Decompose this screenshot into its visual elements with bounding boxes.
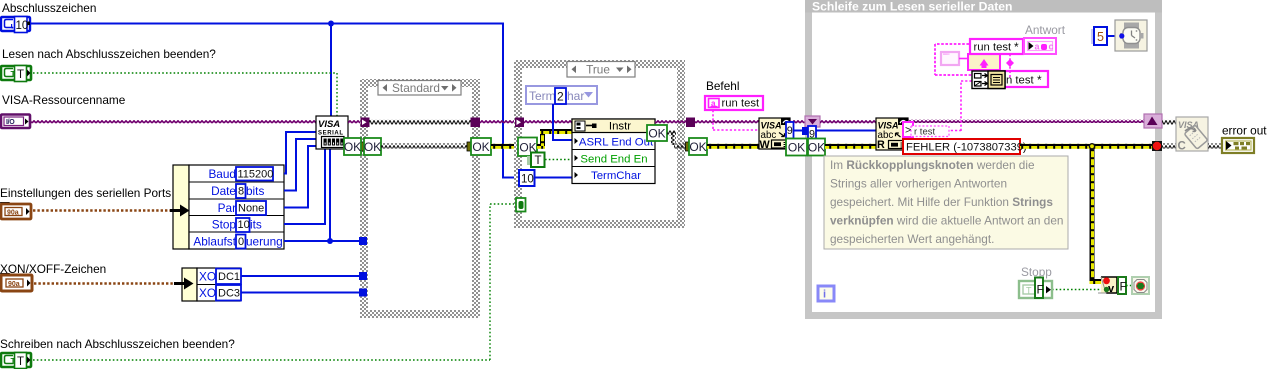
node ring constant TermChar: [526, 86, 597, 104]
constant 2 termination mode: [555, 88, 566, 104]
wire error yellow between case 1 and case 2: [491, 144, 519, 149]
wire blue from 5 to Wait function: [1107, 35, 1120, 37]
node junction diamond on answer wire: [1006, 59, 1014, 67]
node error display FEHLER (-1073807339): [903, 139, 1020, 154]
svg-text:Term: Term: [529, 89, 556, 103]
svg-text:error out: error out: [1222, 124, 1267, 138]
wire blue Ablaufsteuerung from bundle to case 1 tunnel with branch to VISA serial icon: [284, 149, 359, 241]
wire blue Paritaet from bundle to VISA serial icon: [284, 146, 316, 208]
node error wire value display OK outside loop: [786, 139, 807, 156]
svg-text:DC3: DC3: [218, 288, 240, 300]
svg-text:run test: run test: [974, 42, 1013, 54]
svg-text:Date: Date: [211, 184, 236, 198]
node tunnel olive error on case 1 left border: [360, 142, 366, 151]
node tunnel black error on loop border: [804, 142, 809, 150]
svg-text:Stop: Stop: [212, 218, 237, 232]
svg-text:F: F: [1120, 280, 1127, 294]
svg-text:OK: OK: [344, 140, 361, 154]
svg-text:OK: OK: [364, 140, 381, 154]
node error wire value display OK at case 1 right: [471, 138, 491, 155]
node Wait (ms) function icon: [1115, 20, 1147, 51]
constant DC3 XOFF character: [216, 285, 241, 301]
node tunnel blue byte count on loop border: [802, 127, 810, 135]
node read string value display >: [903, 122, 913, 137]
svg-text:Strings aller vorherigen Antwo: Strings aller vorherigen Antworten: [830, 177, 1007, 191]
node tunnel blue flow-control on case 1 left border: [359, 237, 367, 245]
node black arrow into XON/XOFF unbundle: [174, 278, 194, 290]
svg-text:*: *: [1037, 73, 1042, 87]
wire zigzag VISA from loop to VISA Close: [1162, 120, 1176, 125]
structure case 2 border (True): [514, 60, 685, 228]
svg-text:F: F: [1037, 283, 1044, 297]
svg-text:90a: 90a: [8, 281, 20, 288]
svg-text:8: 8: [238, 186, 244, 198]
wire blue Datenbits from bundle to VISA serial icon: [284, 139, 316, 191]
wire purple VISA inside case 1: [369, 120, 472, 125]
svg-text:its: its: [250, 218, 262, 232]
node shift register right (VISA): [1144, 114, 1162, 128]
wire blue byte count from Write to VISA Read: [793, 130, 876, 132]
svg-text:i: i: [823, 289, 826, 301]
svg-text:5: 5: [1097, 30, 1104, 44]
svg-text:C: C: [1178, 141, 1186, 153]
wire purple VISA from case 2 to VISA Write: [695, 120, 759, 124]
constant boolean T for Send End En: [527, 153, 545, 168]
svg-text:VISA-Ressourcenname: VISA-Ressourcenname: [2, 93, 126, 107]
node error wire value display OK right of case 2: [689, 138, 707, 155]
svg-text:OK: OK: [648, 127, 665, 141]
svg-text:Abschlusszeichen: Abschlusszeichen: [2, 1, 96, 15]
svg-text:uerung: uerung: [246, 235, 283, 249]
wire error yellow from loop border to VISA Read: [825, 144, 876, 149]
svg-text:OK: OK: [788, 141, 805, 155]
node tunnel blue XON DC1 on case 1 left border: [359, 272, 367, 280]
node read string partial display r test: [911, 126, 949, 137]
wire green dotted from Stopp terminal to Or node: [1052, 289, 1104, 291]
wire blue Stoppbits from bundle to VISA serial icon bottom: [284, 149, 325, 224]
wire error zigzag inside case 1: [381, 144, 468, 149]
wire error zigzag from property node to case 2 right tunnel: [667, 131, 676, 136]
svg-text:T: T: [17, 69, 24, 81]
svg-text:r test: r test: [914, 127, 935, 138]
terminal Abschlusszeichen numeric control U16 value 10: [1, 17, 30, 33]
wire blue from Abschlusszeichen to case 2 tunnel: [31, 23, 520, 178]
node feedback node initializer: [941, 52, 959, 65]
svg-text:run test: run test: [722, 98, 761, 110]
constant 10 stop bits: [236, 218, 250, 232]
svg-text:Antwort: Antwort: [1025, 23, 1066, 37]
node black arrow into serial-settings bundle: [170, 205, 190, 217]
svg-text:Standard: Standard: [392, 81, 440, 95]
constant 8 data bits: [236, 184, 246, 198]
node comment box Rueckkopplungsknoten: [824, 156, 1068, 249]
wire purple VISA from Read to right shift register: [908, 119, 1144, 123]
wire blue from ring constant to ASRL End Out property: [553, 104, 575, 140]
node junction dot on Ablaufsteuerung wire: [327, 238, 333, 244]
node feedback wire zigzag (previous answer): [935, 44, 972, 75]
wire green dotted from Or to loop condition terminal: [1126, 285, 1133, 287]
svg-text:VISA: VISA: [878, 121, 899, 131]
node VISA Configure Serial Port VI icon: [316, 116, 348, 149]
terminal VISA-Ressourcenname I/O control: [1, 115, 30, 129]
node byte count value display 9 outside loop: [786, 122, 794, 139]
node tunnel blue XOFF DC3 on case 1 left border: [359, 289, 367, 297]
svg-text:Im Rückkopplungsknoten werden: Im Rückkopplungsknoten werden die: [830, 158, 1035, 172]
svg-text:I/O: I/O: [6, 119, 15, 126]
svg-text:Par: Par: [218, 201, 236, 215]
terminal Stopp boolean control: [1019, 278, 1052, 299]
svg-text:90a: 90a: [7, 210, 19, 217]
node bundle-by-name serial settings (Baudrate/Datenbits/Paritaet/Stoppbits/Ablaufsteuerung): [173, 165, 284, 249]
node tunnel green boolean on case 2 left border bottom: [516, 198, 526, 212]
svg-text:Befehl: Befehl: [706, 79, 739, 93]
svg-text:VISA: VISA: [761, 121, 782, 131]
wire blue from tunnel 10 to TermChar property: [535, 177, 576, 179]
wire error yellow from OK display up into property node: [537, 144, 545, 149]
node error wire value display OK outside case 1: [344, 138, 361, 155]
node VISA Write VI icon: [759, 118, 790, 151]
wire brown dotted cluster from Einstellungen terminal to bundle node: [33, 209, 174, 212]
node loop condition terminal stop if true: [1132, 277, 1149, 294]
svg-text:""'': ""'': [943, 54, 950, 60]
svg-text:0: 0: [238, 236, 244, 248]
constant DC1 XON character: [216, 269, 241, 285]
node tunnel purple VISA case 1 right: [471, 118, 481, 128]
svg-text:9: 9: [787, 125, 793, 137]
node tunnel purple VISA case 1 left: [361, 118, 370, 128]
wire brown dotted cluster from XON/XOFF terminal to unbundle node: [34, 282, 178, 285]
svg-text:Schleife zum Lesen serieller D: Schleife zum Lesen serieller Daten: [812, 0, 1013, 14]
node tunnel purple VISA case 2 right: [686, 118, 695, 128]
svg-text:Lesen nach Abschlusszeichen be: Lesen nach Abschlusszeichen beenden?: [2, 47, 216, 61]
wire purple VISA inside case 2 to property node: [524, 120, 573, 124]
svg-text:Ablaufst: Ablaufst: [193, 235, 236, 249]
node concatenated string display n test * (run test): [1002, 71, 1048, 87]
svg-text:115200: 115200: [238, 169, 274, 181]
node tunnel numeric 10 on case 2 left border: [519, 170, 535, 186]
node unbundle XON/XOFF characters: [182, 268, 240, 301]
svg-text:har: har: [567, 89, 584, 103]
svg-text:W: W: [760, 139, 771, 151]
node case 2 selector label True: [567, 62, 635, 78]
node error wire value display OK at property node output: [647, 125, 667, 141]
wire pink dotted string from Befehl terminal to VISA Write: [713, 110, 759, 130]
node byte count value display 9 inside loop: [808, 126, 816, 142]
wire purple VISA between case 1 and case 2: [480, 120, 515, 124]
node junction dot on Abschlusszeichen wire: [328, 21, 334, 27]
svg-text:OK: OK: [689, 140, 706, 154]
structure case 1 border (Standard): [360, 79, 480, 318]
svg-text:OK: OK: [472, 140, 489, 154]
wire error yellow from case 2 to VISA Write: [707, 144, 759, 149]
svg-text:TermChar: TermChar: [591, 170, 641, 182]
wire error yellow branch down to Or node: [1090, 146, 1095, 279]
node tunnel olive error on case 1 right border: [467, 142, 473, 151]
svg-text:10: 10: [238, 219, 250, 231]
node VISA property node Instr (ASRL End Out / Send End En / TermChar): [572, 119, 655, 184]
node tunnel olive error on case 2 right border: [686, 142, 691, 151]
wire purple VISA from property node to case 2 right tunnel: [655, 120, 686, 124]
svg-text:Schreiben nach Abschlusszeiche: Schreiben nach Abschlusszeichen beenden?: [0, 337, 235, 351]
constant 115200 baud rate: [236, 167, 273, 181]
structure while loop Schleife zum Lesen serieller Daten: [805, 0, 1162, 319]
svg-text:T: T: [17, 356, 24, 368]
svg-text:OK: OK: [808, 141, 825, 155]
wire zigzag error from VISA Close to error out: [1208, 144, 1223, 149]
wire purple VISA from Write to loop shift register: [790, 120, 806, 124]
svg-text:XO: XO: [199, 286, 216, 300]
svg-text:None: None: [238, 203, 264, 215]
terminal XON/XOFF-Zeichen cluster control: [0, 273, 32, 291]
wire blue Baudrate from bundle to VISA serial icon: [284, 132, 316, 174]
node error wire value display OK at case 2 left: [518, 138, 537, 157]
node tunnel error with red dot on loop right border: [1152, 141, 1162, 151]
svg-text:VISA: VISA: [318, 119, 340, 130]
wire pink read string from Read up to concatenate: [913, 81, 972, 131]
wire purple VISA from shift register to VISA Read: [820, 120, 876, 124]
svg-text:Send End En: Send End En: [580, 154, 647, 166]
constant 0 flow control: [236, 235, 246, 249]
wire error yellow from FEHLER display to loop right border: [1020, 144, 1153, 149]
node tunnel purple VISA case 2 left: [515, 118, 524, 128]
svg-text:T: T: [1026, 286, 1032, 296]
node case 1 selector label Standard: [378, 81, 461, 96]
node boolean value display F at Or output: [1118, 277, 1126, 294]
svg-text:bits: bits: [246, 184, 264, 198]
node iteration terminal i: [818, 286, 834, 301]
svg-text:gespeichert. Mit Hilfe der Fun: gespeichert. Mit Hilfe der Funktion Stri…: [830, 195, 1053, 209]
node error wire value display OK inside case 1 left: [364, 138, 381, 155]
svg-text:verknüpfen wird die aktuelle A: verknüpfen wird die aktuelle Antwort an …: [830, 214, 1063, 228]
svg-text:10: 10: [521, 174, 534, 186]
svg-text:*: *: [1014, 40, 1019, 54]
svg-text:XO: XO: [199, 270, 216, 284]
constant None parity: [236, 201, 266, 215]
node error wire value display OK inside loop: [808, 139, 825, 156]
wire blue XON char DC1 to case 1 tunnel: [240, 275, 359, 277]
terminal Einstellungen des seriellen Ports cluster control: [0, 202, 31, 219]
wire zigzag error from loop to VISA Close: [1162, 144, 1176, 149]
svg-text:2: 2: [557, 90, 564, 104]
svg-text:R: R: [877, 139, 885, 151]
wire green dotted Lesen nach Abschlusszeichen to VISA serial icon: [33, 73, 337, 116]
svg-text:True: True: [586, 63, 610, 77]
svg-text:gespeicherten Wert angehängt.: gespeicherten Wert angehängt.: [830, 232, 994, 246]
terminal Schreiben nach Abschlusszeichen beenden? boolean TRUE: [1, 353, 31, 369]
wire purple VISA resource from terminal to VISA serial icon: [30, 120, 316, 124]
terminal Antwort string indicator: [1024, 38, 1056, 54]
node feedback node: [968, 54, 1000, 70]
svg-text:FEHLER (-1073807339): FEHLER (-1073807339): [906, 142, 1027, 154]
wire blue XOFF char DC3 to case 1 tunnel: [240, 292, 359, 294]
svg-text:DC1: DC1: [218, 271, 240, 283]
svg-text:T: T: [535, 155, 542, 167]
terminal Lesen nach Abschlusszeichen beenden? boolean TRUE: [1, 66, 31, 82]
svg-text:SERIAL: SERIAL: [318, 131, 344, 137]
terminal Befehl string control value run test: [705, 96, 763, 110]
svg-text:Baud: Baud: [208, 167, 236, 181]
svg-text:c: c: [1049, 42, 1054, 52]
terminal error out cluster indicator: [1222, 138, 1254, 153]
wire green dotted from T constant to Send End En property: [545, 159, 575, 161]
node answer string display run test *: [970, 39, 1023, 54]
node VISA Close VI icon: [1176, 117, 1208, 153]
svg-text:ASRL End Out: ASRL End Out: [579, 137, 654, 149]
node concatenate strings function: [972, 71, 1005, 89]
wire purple VISA from serial icon into case 1: [348, 120, 362, 124]
svg-text:Instr: Instr: [609, 121, 631, 133]
wire pink vertical from concatenate output to Antwort wire: [1009, 54, 1011, 78]
constant 5 ms wait time: [1091, 29, 1097, 44]
svg-text:Einstellungen des seriellen Po: Einstellungen des seriellen Ports: [0, 186, 171, 200]
node VISA Read VI icon: [876, 118, 908, 151]
svg-text:10: 10: [16, 20, 29, 32]
node shift register left (VISA): [805, 116, 820, 127]
node Or function with error status and stop inputs: [1098, 277, 1117, 295]
wire green dotted Schreiben nach Abschlusszeichen to case 2 tunnel: [33, 204, 516, 360]
